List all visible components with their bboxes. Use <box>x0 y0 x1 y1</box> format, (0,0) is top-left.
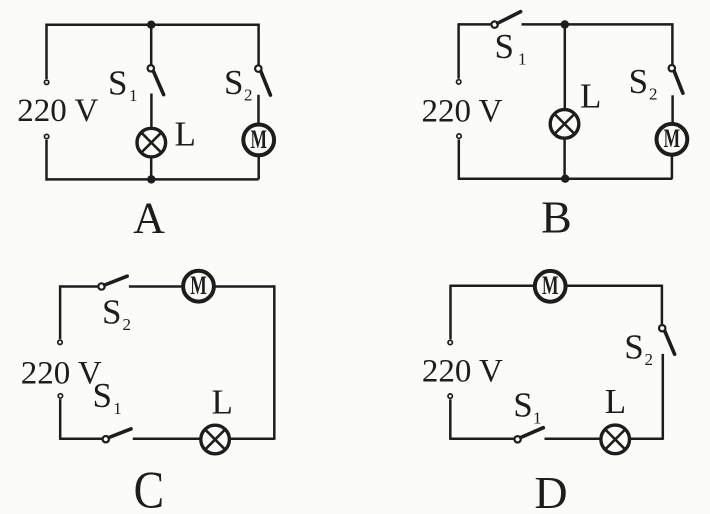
svg-text:220 V: 220 V <box>17 93 98 129</box>
node B bottom junction <box>561 175 569 183</box>
wire C left upper <box>59 285 62 339</box>
node B top junction <box>561 20 569 28</box>
svg-text:B: B <box>541 191 572 242</box>
wire D top right <box>566 285 662 288</box>
wire B bottom <box>459 178 673 181</box>
svg-text:S: S <box>513 385 532 424</box>
svg-text:S: S <box>495 27 514 66</box>
battery terminal A lower <box>44 134 48 138</box>
switch S2 pivot (A) <box>255 65 261 71</box>
battery terminal D upper <box>448 340 452 344</box>
svg-text:M: M <box>250 125 267 154</box>
wire D left upper <box>449 285 452 340</box>
switch S2 pivot (B) <box>669 65 675 71</box>
wire D left lower <box>449 399 452 440</box>
switch S2 blade (A) <box>261 71 271 95</box>
switch S2 blade (B) <box>674 71 683 93</box>
wire C top right <box>214 285 274 288</box>
svg-text:L: L <box>175 115 196 154</box>
wire B middle branch lower <box>563 138 566 179</box>
wire D right lower <box>662 354 665 439</box>
switch S1 blade (D) <box>521 428 544 438</box>
wire C top left <box>60 285 98 288</box>
wire A middle branch upper <box>150 25 153 65</box>
wire A middle branch mid <box>150 94 153 129</box>
wire C bottom right <box>231 437 275 440</box>
wire A middle branch lower <box>150 157 153 180</box>
wire C left lower <box>59 399 62 440</box>
svg-text:1: 1 <box>518 50 527 69</box>
wire D bottom left <box>451 437 515 440</box>
svg-text:1: 1 <box>129 86 138 105</box>
wire C bottom mid <box>133 437 200 440</box>
switch S1 blade (C) <box>109 429 131 438</box>
svg-text:S: S <box>108 63 127 102</box>
switch S1 pivot (C) <box>103 436 109 442</box>
wire B left lower <box>458 139 461 180</box>
svg-text:M: M <box>542 271 559 300</box>
wire B top left <box>459 23 492 26</box>
svg-text:C: C <box>134 462 165 514</box>
svg-text:M: M <box>190 271 207 300</box>
svg-text:M: M <box>664 124 681 153</box>
motor M (C) <box>183 271 214 302</box>
switch S1 pivot (A) <box>148 65 154 71</box>
wire A right lower <box>257 156 260 180</box>
lamp L (D) <box>601 425 630 454</box>
wire C bottom left <box>60 437 103 440</box>
wire A top <box>47 23 259 26</box>
battery terminal A upper <box>44 80 48 84</box>
motor M (B) <box>657 124 688 155</box>
switch S2 pivot (D) <box>659 325 665 331</box>
wire D bottom mid <box>545 437 600 440</box>
svg-text:1: 1 <box>533 408 542 427</box>
wire C right <box>273 285 276 440</box>
wire B right upper <box>671 23 674 65</box>
battery terminal D lower <box>448 394 452 398</box>
svg-text:220 V: 220 V <box>422 93 503 129</box>
svg-text:2: 2 <box>123 315 132 334</box>
battery terminal B lower <box>457 134 461 138</box>
battery terminal C upper <box>58 340 62 344</box>
svg-text:L: L <box>580 77 601 116</box>
svg-text:1: 1 <box>113 399 122 418</box>
switch S1 blade (A) <box>153 71 163 94</box>
svg-text:D: D <box>534 467 567 514</box>
svg-text:2: 2 <box>244 86 253 105</box>
svg-text:2: 2 <box>645 350 654 369</box>
lamp L (A) <box>137 128 166 157</box>
wire A left lower <box>45 140 48 181</box>
wire A bottom <box>47 178 259 181</box>
motor M (A) <box>243 124 274 155</box>
wire D bottom right <box>631 437 664 440</box>
svg-text:S: S <box>629 62 648 101</box>
switch S1 pivot (B) <box>491 21 497 27</box>
svg-text:2: 2 <box>649 85 658 104</box>
wire B right lower <box>671 155 674 179</box>
svg-text:220 V: 220 V <box>422 353 503 389</box>
wire B top right <box>522 23 673 26</box>
switch S2 blade (C) <box>105 276 128 285</box>
switch S2 pivot (C) <box>98 283 104 289</box>
lamp L (C) <box>201 425 230 454</box>
svg-text:S: S <box>93 376 112 415</box>
battery terminal B upper <box>457 80 461 84</box>
svg-text:A: A <box>133 194 165 243</box>
wire A right upper <box>257 24 260 66</box>
svg-text:S: S <box>102 293 121 332</box>
svg-text:S: S <box>624 327 643 366</box>
wire B middle branch upper <box>564 24 567 109</box>
wire B left upper <box>457 23 460 78</box>
wire B right mid <box>671 95 674 123</box>
wire A right mid <box>257 95 260 124</box>
svg-text:S: S <box>224 63 243 102</box>
svg-text:220 V: 220 V <box>21 356 102 392</box>
wire D right upper <box>661 285 664 325</box>
motor M (D) <box>535 271 566 302</box>
svg-text:L: L <box>212 383 233 422</box>
switch S2 blade (D) <box>665 331 675 354</box>
wire A left upper <box>45 24 48 80</box>
wire D top left <box>451 285 535 288</box>
battery terminal C lower <box>58 394 62 398</box>
node A bottom junction <box>147 175 155 183</box>
switch S1 pivot (D) <box>514 436 520 442</box>
node A top junction <box>147 21 155 29</box>
wire C top mid <box>129 285 183 288</box>
svg-text:L: L <box>605 382 626 421</box>
switch S1 blade (B) <box>498 12 521 24</box>
lamp L (B) <box>550 110 579 139</box>
